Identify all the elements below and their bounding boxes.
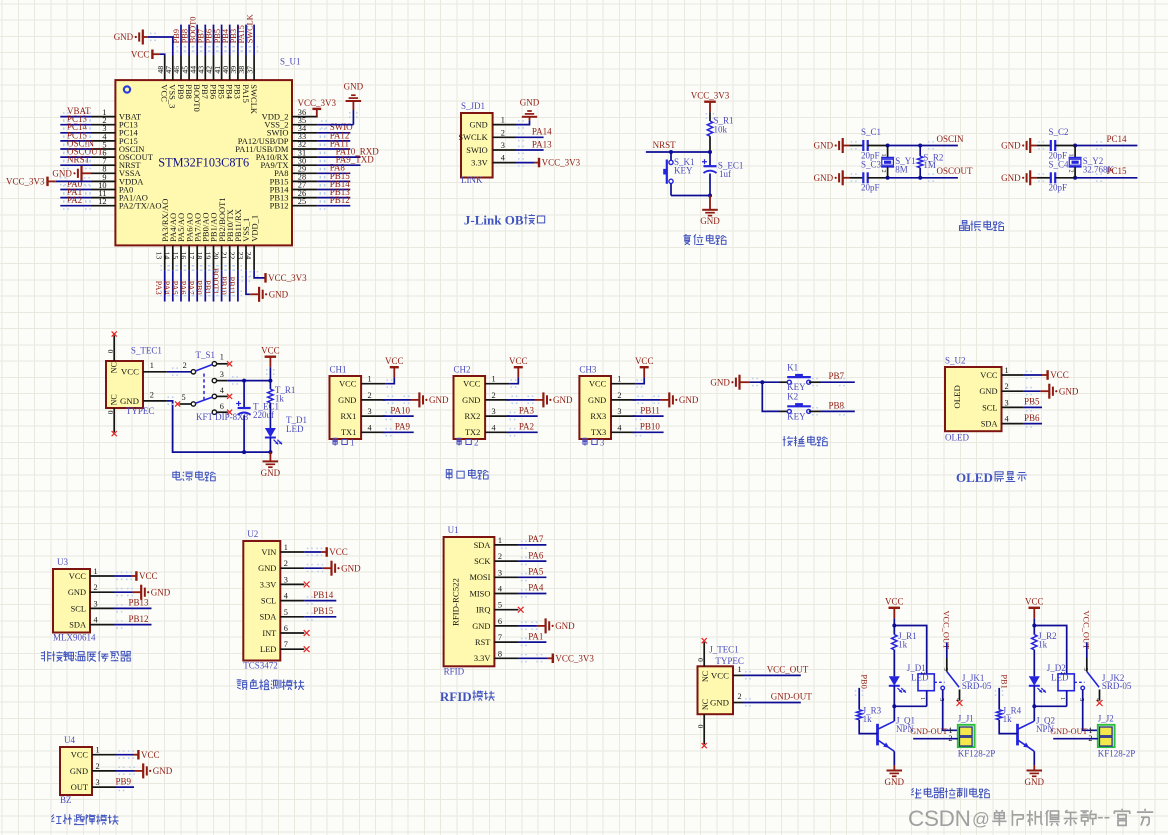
wire+label PB10	[633, 422, 664, 437]
svg-text:VCC_3V3: VCC_3V3	[691, 91, 730, 101]
svg-text:NC: NC	[109, 394, 118, 405]
MCU pin 3 PC14	[60, 122, 138, 138]
svg-text:3: 3	[1082, 668, 1089, 671]
S_JD1 pin 2 SWCLK	[458, 128, 516, 142]
U2 pin 6 INT	[262, 624, 304, 638]
svg-text:2: 2	[880, 170, 887, 173]
svg-text:VCC: VCC	[589, 380, 607, 389]
CH1 pin 2 GND	[338, 391, 386, 405]
svg-text:GND: GND	[472, 622, 490, 631]
svg-text:J_J1: J_J1	[958, 713, 974, 723]
CH3 pin 2 GND	[588, 391, 636, 405]
svg-text:GND-OUT: GND-OUT	[910, 727, 947, 736]
wire+GND U4 GND	[116, 763, 173, 778]
title power circuit	[173, 471, 216, 481]
svg-text:24: 24	[244, 252, 253, 260]
GND earth J_Q2	[1025, 765, 1045, 787]
svg-text:2: 2	[492, 391, 496, 400]
relay J_JK1 switch	[938, 642, 992, 706]
value RFID	[444, 666, 465, 676]
svg-text:SDA: SDA	[260, 613, 277, 622]
svg-text:TX1: TX1	[341, 428, 356, 437]
value BZ	[60, 795, 72, 805]
MCU pin 35 VSS_2	[264, 116, 317, 130]
svg-text:3: 3	[492, 407, 496, 416]
title IR obstacle module	[51, 814, 119, 824]
svg-text:1k: 1k	[1038, 640, 1048, 650]
svg-text:SCL: SCL	[982, 403, 997, 412]
designator U2	[247, 529, 258, 539]
svg-text:1: 1	[492, 375, 496, 384]
U1 pin 6 GND	[472, 617, 518, 631]
svg-text:1k: 1k	[275, 393, 285, 403]
svg-text:NC: NC	[701, 699, 710, 710]
svg-text:2: 2	[368, 391, 372, 400]
svg-text:GND-OUT: GND-OUT	[1050, 727, 1087, 736]
U4 pin 2 GND	[70, 762, 116, 776]
svg-text:GND: GND	[979, 387, 997, 396]
svg-text:3.3V: 3.3V	[474, 654, 491, 663]
GND power symbol key circuit	[710, 375, 749, 390]
S_TEC1 pin 2 GND	[120, 390, 167, 406]
MCU pin 47 VSS_3	[164, 56, 178, 109]
U1 pin 2 SCK	[474, 552, 518, 566]
wire S_JD1 pin1 to GND	[516, 120, 530, 129]
MCU pin 43 PB7	[197, 25, 211, 99]
svg-text:S_C3: S_C3	[861, 159, 882, 169]
U1 pin 8 3.3V	[474, 649, 519, 663]
svg-text:1k: 1k	[898, 640, 908, 650]
wire+label PA4 U1	[518, 583, 546, 598]
svg-text:OLED: OLED	[945, 433, 969, 443]
VCC_3V3 power reset circuit	[691, 91, 730, 113]
svg-text:NRST: NRST	[653, 140, 677, 150]
svg-text:RX1: RX1	[340, 412, 356, 421]
svg-text:PB12: PB12	[128, 614, 148, 624]
MCU U1 body STM32F103C8T6	[115, 80, 292, 245]
wire + OSCIN label	[888, 134, 964, 150]
crystal S_Y1 8M (left crystal)	[880, 146, 916, 178]
wire+GND CH3	[633, 392, 699, 407]
svg-text:OLED: OLED	[952, 385, 962, 408]
svg-text:OSCIN: OSCIN	[937, 134, 965, 144]
svg-text:J_TEC1: J_TEC1	[709, 645, 739, 655]
svg-text:PA4: PA4	[162, 281, 171, 296]
svg-text:RFID: RFID	[444, 666, 465, 676]
svg-text:13: 13	[155, 252, 164, 260]
svg-text:5: 5	[1078, 698, 1085, 701]
U2 pin 7 LED	[260, 640, 304, 654]
U3 pin 4 SDA	[69, 616, 114, 630]
CH2 pin 2 GND	[462, 391, 510, 405]
svg-text:3: 3	[284, 575, 288, 584]
svg-text:VCC: VCC	[1050, 370, 1069, 380]
designator U4	[64, 735, 75, 745]
svg-text:PA5: PA5	[170, 281, 179, 295]
S_U2 pin 1 VCC	[980, 366, 1023, 380]
svg-text:VIN: VIN	[261, 548, 276, 557]
svg-text:2: 2	[498, 552, 502, 561]
MCU pin 34 SWIO	[267, 122, 353, 138]
wire+label PB14 U2	[304, 590, 336, 605]
svg-text:3: 3	[942, 668, 949, 671]
wire + PC14 label	[1075, 134, 1137, 150]
svg-text:GND: GND	[1025, 777, 1045, 787]
designator U3	[57, 557, 68, 567]
MCU pin 31 PA10/RX	[256, 147, 380, 163]
svg-text:VDD_1: VDD_1	[249, 215, 259, 242]
connector J_TEC1 TYPEC body	[698, 666, 734, 714]
svg-text:1uf: 1uf	[719, 169, 731, 179]
svg-text:PA5: PA5	[528, 567, 544, 577]
resistor J_R2 1k	[1032, 626, 1057, 677]
svg-text:37: 37	[245, 66, 254, 74]
MCU pin 44 BOOT0	[188, 17, 202, 112]
svg-text:SRD-05: SRD-05	[962, 681, 992, 691]
relay J_JK1 SRD-05 coil	[892, 672, 944, 709]
wire relay pin5 to connector	[943, 690, 958, 731]
wire+VCC U3 VCC	[114, 571, 158, 581]
svg-text:7: 7	[284, 640, 288, 649]
J_TEC1 bottom NC pin	[696, 699, 710, 748]
NRST net label and wire	[646, 140, 712, 154]
GND power symbol upper (right crystal)	[1001, 138, 1051, 153]
MCU pin 13 PA3/RX/AO	[154, 199, 170, 302]
wire resistor to NRST node	[709, 136, 711, 152]
VCC_3V3 power symbol at MCU pin 9 VDDA	[6, 177, 91, 187]
svg-text:5: 5	[182, 393, 186, 402]
designator CH3	[579, 365, 597, 375]
wire+label PB12 U3	[114, 614, 152, 629]
wire+label PB6	[1024, 413, 1042, 428]
designator S_TEC1	[131, 345, 162, 355]
VCC_3V3 power symbol at MCU pin 36 VDD_2	[298, 98, 337, 117]
MCU pin 25 PB12	[270, 195, 351, 211]
MCU pin 29 PA8	[274, 163, 350, 179]
svg-text:2: 2	[738, 692, 742, 701]
svg-text:10k: 10k	[714, 125, 728, 135]
svg-text:K2: K2	[787, 392, 798, 402]
svg-text:RFID: RFID	[440, 689, 472, 704]
MCU pin 20 PB2/BOOT1	[211, 197, 227, 301]
svg-text:RFID-RC522: RFID-RC522	[451, 578, 461, 626]
VCC power symbol power circuit	[261, 346, 280, 381]
svg-text:PB1: PB1	[203, 280, 212, 294]
title J-Link OB interface	[464, 212, 545, 227]
MCU pin 7 NRST	[60, 155, 141, 171]
S_TEC1 bottom NC pin with no-connect	[106, 394, 118, 436]
GND power symbol at MCU pin 8 VSSA	[52, 166, 91, 181]
svg-text:U3: U3	[57, 557, 68, 567]
wire+label PB11	[633, 405, 664, 420]
svg-text:LED: LED	[260, 645, 276, 654]
svg-text:S_C2: S_C2	[1049, 127, 1069, 137]
wire cap to node lower (left crystal)	[868, 176, 890, 180]
svg-text:PA7: PA7	[528, 534, 544, 544]
svg-text:VCC: VCC	[980, 371, 998, 380]
svg-text:PB5: PB5	[1024, 397, 1040, 407]
svg-text:0: 0	[696, 658, 705, 662]
svg-text:16: 16	[179, 252, 188, 260]
svg-text:SDA: SDA	[69, 621, 86, 630]
S_U2 pin 2 GND	[979, 382, 1023, 396]
MCU pin 27 PB14	[270, 179, 351, 195]
GND earth J_Q1	[885, 765, 905, 787]
resistor J_R3 1k	[855, 688, 882, 734]
svg-text:3: 3	[498, 568, 502, 577]
svg-text:5: 5	[938, 698, 945, 701]
designator J_TEC1	[709, 645, 739, 655]
svg-text:GND: GND	[470, 121, 488, 130]
wire+GND CH1	[383, 392, 449, 407]
svg-text:1: 1	[368, 375, 372, 384]
wire+label PA1 U1	[518, 631, 546, 646]
MCU pin 21 PB10/TX	[219, 209, 235, 301]
svg-text:PA3: PA3	[519, 405, 535, 415]
wire+VCC_3V3 U1 3.3V	[518, 653, 594, 663]
value label under CH1	[333, 438, 355, 448]
svg-text:VCC: VCC	[139, 571, 158, 581]
svg-text:SWCLK: SWCLK	[245, 14, 254, 43]
svg-text:2: 2	[919, 672, 926, 675]
GND power symbol at MCU pin 35 VSS_2	[318, 82, 364, 129]
svg-text:PB12: PB12	[330, 195, 350, 205]
svg-text:S_JD1: S_JD1	[461, 101, 485, 111]
svg-text:TYPEC: TYPEC	[126, 406, 155, 416]
wire junction down to K2 row	[762, 382, 779, 411]
J_TEC1 pin 1 VCC -> VCC_OUT	[711, 665, 809, 681]
svg-text:3: 3	[617, 407, 621, 416]
svg-text:3: 3	[1005, 398, 1009, 407]
svg-text:PB1: PB1	[999, 674, 1008, 688]
svg-text:VCC_3V3: VCC_3V3	[268, 273, 307, 283]
svg-text:GND: GND	[429, 395, 449, 405]
designator U1	[448, 525, 459, 535]
MCU pin 41 PB5	[213, 25, 227, 99]
wire+GND U3 GND	[114, 585, 171, 600]
svg-text:RST: RST	[475, 638, 490, 647]
svg-text:GND: GND	[338, 396, 356, 405]
svg-text:RX3: RX3	[590, 412, 606, 421]
svg-text:1: 1	[284, 543, 288, 552]
U1 pin 3 MOSI	[469, 568, 518, 582]
svg-text:20pF: 20pF	[861, 183, 880, 193]
svg-text:J_J2: J_J2	[1098, 713, 1114, 723]
MCU pin 46 PB9	[172, 25, 186, 99]
value LINK	[461, 175, 483, 185]
svg-text:GND: GND	[700, 216, 720, 226]
CH1 pin 3 RX1	[340, 407, 385, 421]
svg-text:1: 1	[738, 665, 742, 674]
MCU pin 5 OSCIN	[60, 138, 144, 154]
svg-text:5: 5	[498, 601, 502, 610]
svg-text:VCC: VCC	[1025, 597, 1044, 607]
wire+VCC CH2	[509, 356, 528, 388]
svg-text:KEY: KEY	[787, 411, 806, 421]
MCU pin 1 VBAT	[60, 106, 142, 122]
U3 pin 3 SCL	[71, 599, 114, 613]
net label PB0 rotated	[859, 674, 868, 688]
svg-text:GND: GND	[344, 82, 364, 92]
CH2 pin 1 VCC	[463, 375, 510, 389]
svg-text:MOSI: MOSI	[469, 573, 490, 582]
value label under CH3	[583, 438, 605, 448]
svg-text:@: @	[972, 809, 990, 829]
wire+label PA6 U1	[518, 550, 546, 565]
S_TEC1 pin 1 VCC	[121, 361, 167, 377]
svg-text:PB14: PB14	[313, 590, 334, 600]
MCU pin 8 VSSA	[91, 165, 141, 179]
capacitor S_C4 20pF (right crystal)	[1049, 159, 1070, 192]
MCU pin 22 PB11/RX	[227, 209, 243, 301]
MCU pin 17 PA7/AO	[187, 213, 203, 302]
title key circuit	[783, 436, 828, 447]
title relay control circuit	[911, 788, 990, 799]
MCU pin 32 PA11/USB/DM	[235, 138, 350, 154]
svg-text:VCC_3V3: VCC_3V3	[298, 98, 337, 108]
svg-text:3: 3	[600, 438, 605, 448]
wire+label PA14	[516, 127, 552, 142]
MCU pin 28 PB15	[270, 171, 351, 187]
designator CH2	[454, 365, 471, 375]
GND power symbol lower (right crystal)	[1001, 170, 1051, 185]
svg-text:PB8: PB8	[829, 400, 845, 410]
svg-text:6: 6	[498, 617, 502, 626]
svg-text:GND: GND	[710, 377, 730, 387]
svg-text:VCC_3V3: VCC_3V3	[542, 158, 581, 168]
GND power symbol at MCU pin 47 VSS_3	[114, 30, 173, 56]
capacitor S_C3 20pF (left crystal)	[861, 159, 882, 192]
LED T_D1	[265, 415, 307, 454]
svg-text:17: 17	[187, 252, 196, 260]
designator S_U1	[280, 56, 301, 66]
connector CH3 body	[579, 376, 611, 439]
U2 pin 4 SCL	[261, 592, 304, 606]
svg-text:GND: GND	[52, 168, 72, 178]
svg-text:3: 3	[220, 370, 224, 379]
svg-text:PA13: PA13	[532, 139, 552, 149]
svg-text:2: 2	[284, 559, 288, 568]
MCU pin 19 PB1/AO	[203, 213, 219, 302]
svg-text:GND: GND	[1001, 173, 1021, 183]
svg-text:S_U1: S_U1	[280, 56, 301, 66]
value TYPEC	[126, 406, 155, 416]
U2 pin 5 SDA	[260, 608, 305, 622]
wire+label PA10	[383, 405, 414, 420]
CH1 pin 1 VCC	[339, 375, 386, 389]
U3 pin 2 GND	[68, 583, 114, 597]
S_JD1 pin 1 GND	[470, 116, 516, 130]
svg-text:6: 6	[220, 402, 224, 411]
MCU pin 4 PC15	[60, 130, 138, 146]
svg-text:CSDN: CSDN	[908, 806, 971, 831]
svg-text:1: 1	[96, 746, 100, 755]
wire switch pin3 to VCC rail	[228, 376, 273, 385]
svg-text:1: 1	[150, 361, 154, 370]
svg-text:VCC_OUT: VCC_OUT	[767, 665, 809, 675]
connector CH1 body	[330, 376, 362, 439]
resistor S_R1 10k	[707, 116, 733, 137]
svg-text:SDA: SDA	[474, 541, 491, 550]
svg-text:PA1: PA1	[528, 631, 543, 641]
wire+GND CH2	[507, 392, 573, 407]
MCU pin 23 VSS_1	[236, 218, 251, 270]
svg-text:VCC_3V3: VCC_3V3	[555, 653, 594, 663]
MCU pin 37 SWCLK	[245, 14, 259, 115]
LED J_D2	[1029, 663, 1069, 706]
value TCS3472	[243, 661, 278, 671]
svg-text:VCC: VCC	[385, 356, 404, 366]
svg-text:VCC: VCC	[329, 547, 348, 557]
svg-text:PC15: PC15	[1107, 166, 1128, 176]
U2 pin 3 3.3V	[260, 575, 305, 589]
svg-text:1: 1	[1005, 366, 1009, 375]
svg-text:GND: GND	[710, 697, 729, 707]
wire TEC GND down and bottom rail	[167, 397, 271, 453]
svg-text:5: 5	[284, 608, 288, 617]
svg-text:VCC: VCC	[711, 670, 729, 680]
svg-text:1: 1	[617, 375, 621, 384]
svg-text:2: 2	[1005, 382, 1009, 391]
svg-text:25: 25	[298, 197, 306, 206]
svg-text:VCC: VCC	[131, 49, 150, 59]
svg-text:3: 3	[501, 141, 505, 150]
MCU pin 18 PB0/AO	[195, 213, 211, 302]
wire+VCC U4 VCC	[116, 750, 160, 760]
wire+GND OLED pin2	[1024, 384, 1079, 399]
svg-text:6: 6	[284, 624, 288, 633]
transistor J_Q2 NPN	[1018, 706, 1056, 765]
MCU pin 10 PA0	[60, 179, 133, 195]
svg-text:0: 0	[106, 349, 115, 353]
wire+label PA13	[516, 139, 552, 154]
MCU pin 39 PB3	[229, 25, 243, 99]
svg-text:2: 2	[96, 762, 100, 771]
U4 pin 3 OUT	[71, 778, 116, 792]
svg-text:0: 0	[696, 724, 705, 728]
MCU pin 2 PC13	[60, 114, 138, 130]
svg-text:GND: GND	[151, 587, 171, 597]
U1 pin 4 MISO	[469, 585, 518, 599]
capacitor S_C1 20pF (left crystal)	[861, 127, 881, 161]
svg-text:OUT: OUT	[71, 783, 88, 792]
svg-text:23: 23	[236, 252, 245, 260]
svg-text:VCC: VCC	[885, 597, 904, 607]
wire cap to node lower (right crystal)	[1055, 176, 1077, 180]
svg-text:J-Link OB: J-Link OB	[464, 212, 524, 227]
connector S_TEC1 TYPEC body	[106, 361, 143, 408]
svg-text:CH1: CH1	[330, 365, 347, 375]
svg-text:SCK: SCK	[474, 557, 490, 566]
svg-text:--: --	[1097, 806, 1110, 828]
relay J_JK2 switch	[1078, 642, 1132, 706]
svg-text:TX3: TX3	[591, 428, 606, 437]
svg-text:PA14: PA14	[532, 127, 552, 137]
title color detection module	[237, 679, 305, 690]
wire+label PA9	[383, 422, 414, 437]
wire+label PB13 U3	[114, 598, 152, 613]
svg-text:GND: GND	[114, 32, 134, 42]
svg-text:GND-OUT: GND-OUT	[771, 692, 812, 702]
U3 pin 1 VCC	[69, 567, 114, 581]
svg-text:S_U2: S_U2	[945, 355, 966, 365]
J_TEC1 pin 2 GND -> GND-OUT	[710, 692, 812, 708]
svg-text:2: 2	[1059, 672, 1066, 675]
svg-text:SCL: SCL	[71, 604, 86, 613]
svg-text:PB10: PB10	[640, 422, 661, 432]
J_TEC1 top NC pin	[696, 638, 710, 682]
svg-text:GND: GND	[553, 395, 573, 405]
